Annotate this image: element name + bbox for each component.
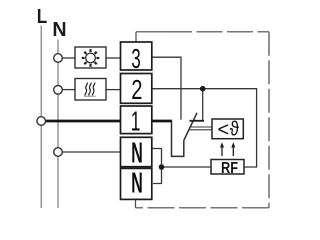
svg-text:N: N bbox=[131, 167, 143, 199]
svg-text:1: 1 bbox=[131, 105, 141, 136]
svg-text:ϑ: ϑ bbox=[230, 117, 240, 140]
svg-text:<: < bbox=[218, 119, 230, 141]
svg-text:L: L bbox=[37, 4, 48, 27]
svg-text:N: N bbox=[131, 136, 143, 168]
svg-text:RF: RF bbox=[221, 160, 238, 178]
svg-text:2: 2 bbox=[131, 75, 142, 106]
svg-text:3: 3 bbox=[131, 42, 140, 74]
svg-text:N: N bbox=[52, 19, 66, 41]
